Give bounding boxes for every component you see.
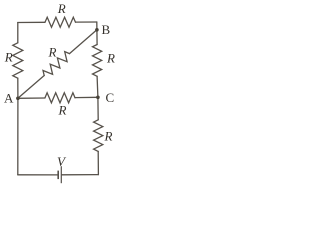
battery V (cell) (58, 166, 61, 183)
resistor R (right edge, B to C) (93, 45, 102, 77)
svg-text:R: R (4, 50, 13, 65)
svg-text:C: C (106, 90, 115, 105)
resistor R (diagonal A to B) (43, 52, 70, 76)
svg-text:A: A (4, 91, 14, 106)
svg-text:B: B (102, 22, 111, 37)
wire horizontal resistor to node C (75, 96, 98, 98)
wire node B to right upper resistor (96, 30, 98, 45)
wire node C to right lower resistor (97, 97, 99, 120)
resistor R (top edge) (45, 17, 76, 27)
wire right lower resistor to bottom-right corner (97, 151, 99, 174)
svg-text:R: R (106, 51, 115, 66)
wire bottom-left corner to battery (18, 174, 58, 176)
battery long plate (60, 166, 62, 183)
resistor R (A to C horizontal) (45, 93, 75, 103)
svg-text:R: R (104, 129, 113, 144)
svg-text:R: R (58, 103, 67, 118)
wire left edge top-left corner to left resistor (17, 23, 19, 43)
node B junction dot (95, 28, 99, 32)
node C junction dot (96, 96, 100, 100)
resistor R (left edge) (13, 43, 23, 78)
svg-text:R: R (48, 45, 57, 60)
wire top-right corner down to node B (96, 22, 98, 30)
node A junction dot (16, 97, 20, 101)
wire top resistor to top-right corner (76, 21, 97, 23)
svg-text:R: R (57, 1, 66, 16)
wire node A down to bottom-left corner (17, 98, 19, 175)
wire left resistor to node A (17, 78, 19, 98)
wire node A to diagonal resistor (18, 76, 44, 99)
wire right upper resistor to node C (96, 76, 99, 97)
wire battery to bottom-right corner (62, 174, 99, 176)
svg-text:V: V (57, 154, 67, 169)
wire diagonal resistor to node B (70, 30, 97, 54)
resistor R (right edge, C to bottom) (94, 120, 103, 152)
battery short plate (57, 171, 59, 180)
wire top-left corner to top resistor (18, 21, 45, 23)
wire node A to horizontal resistor (18, 97, 45, 99)
